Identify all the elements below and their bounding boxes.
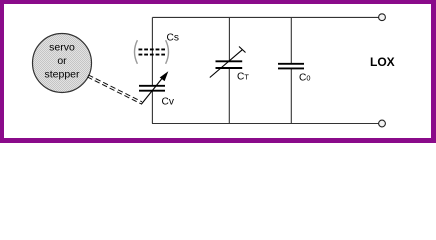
terminal (top output) <box>379 14 386 21</box>
wire: bottom rail <box>152 123 379 125</box>
svg-text:C0: C0 <box>299 73 310 84</box>
svg-text:or: or <box>57 55 67 67</box>
svg-text:CT: CT <box>237 72 249 83</box>
svg-text:Cs: Cs <box>167 33 179 44</box>
capacitor CT (trimmer) <box>210 47 250 83</box>
svg-text:Cv: Cv <box>162 96 175 107</box>
wire: C0 branch lower <box>290 68 292 123</box>
terminal (bottom output) <box>379 120 386 127</box>
wire: C0 branch upper <box>290 17 292 63</box>
capacitor C0 <box>278 64 310 84</box>
svg-text:servo: servo <box>49 42 75 54</box>
servo/stepper motor M1 <box>33 34 92 93</box>
wire: top rail <box>152 16 378 18</box>
svg-text:LOX: LOX <box>370 55 395 69</box>
wire: left branch lower (Cv bottom plate to bottom rail) <box>151 91 153 124</box>
svg-text:stepper: stepper <box>44 69 80 81</box>
wire: CT branch lower <box>228 68 230 124</box>
mechanical link (dashed shaft servo to Cv) <box>87 75 142 104</box>
wire: CT branch upper <box>228 17 230 61</box>
wire: left branch upper (through Cs to Cv top plate) <box>151 17 153 85</box>
capacitor Cs (stray, dashed plates in parentheses) <box>135 33 179 64</box>
capacitor Cv (variable, servo-driven) <box>139 71 175 107</box>
